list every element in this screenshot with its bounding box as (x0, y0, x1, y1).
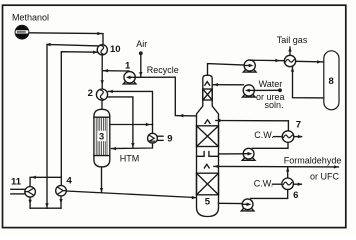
wire water pump discharge to column top spray (213, 84, 243, 86)
node water dot + line (278, 88, 282, 92)
svg-text:5: 5 (205, 197, 211, 208)
svg-text:Formaldehyde: Formaldehyde (284, 156, 342, 166)
svg-text:2: 2 (88, 88, 93, 99)
wire reactor outlet down (101, 167, 103, 192)
wire HX6 riser to product line (287, 167, 289, 178)
packing X wide upper (197, 126, 219, 147)
svg-text:3: 3 (99, 132, 104, 143)
reactor R3 (94, 109, 110, 167)
svg-text:Recycle: Recycle (147, 65, 179, 75)
wire HX10 HTM in (from HX4 riser) (61, 52, 98, 186)
pump P1 tail gas (243, 60, 256, 72)
svg-text:C.W.: C.W. (254, 130, 273, 140)
wire HX4 bottom to loop (60, 196, 62, 208)
pump P3 circulation (242, 148, 255, 160)
wire spray line into column (from HX7/vessel8) (216, 120, 289, 122)
wire HX9 bottom to HTM return (111, 143, 152, 149)
wire HTM out of HX2 down to return (108, 97, 133, 148)
heat exchanger U7 (274, 131, 303, 143)
svg-text:9: 9 (167, 133, 172, 144)
blower K1 (123, 72, 136, 84)
heat exchanger U6 (273, 178, 303, 190)
wire HTM into HX2 from riser (108, 91, 152, 124)
heat exchanger U9 (148, 133, 163, 143)
heat exchanger U10 (97, 45, 107, 55)
wire methanol to HX10 (29, 33, 103, 45)
wire loop bottom (30, 207, 61, 209)
svg-text:Water: Water (259, 79, 283, 89)
wire HX11/HX4 loop top (30, 177, 61, 186)
wire collector drain to pump (219, 153, 244, 155)
wire HX7 bottom to circulation pump (252, 142, 288, 148)
wire blower discharge to main line (103, 70, 129, 72)
svg-text:1: 1 (125, 60, 131, 71)
spray nozzle top (narrow) (205, 82, 210, 86)
pump P2 water feed (243, 85, 256, 97)
heat exchanger tail gas cooler (284, 55, 295, 66)
svg-text:4: 4 (67, 176, 73, 187)
wire pump to tailgas HX (251, 59, 285, 62)
svg-text:11: 11 (11, 176, 22, 187)
packing X narrow (203, 89, 212, 100)
packing X wide lower (197, 173, 219, 195)
node air inlet dot (139, 51, 143, 55)
wire main vertical HX10 to HX2 (101, 55, 103, 89)
svg-text:Air: Air (136, 39, 147, 49)
wire riser down into HX9 (152, 125, 154, 134)
pump P4 bottoms (241, 199, 254, 211)
svg-text:10: 10 (110, 44, 121, 55)
wire HX10 HTM out (left, arrow) (47, 45, 99, 209)
svg-text:7: 7 (296, 120, 301, 131)
methanol source symbol (15, 25, 29, 39)
heat exchanger U2 (96, 89, 107, 100)
collector tray (197, 152, 205, 157)
wire product line (214, 165, 339, 168)
heat exchanger U11 (11, 187, 36, 198)
heat exchanger U4 (56, 185, 67, 196)
wire column top to tailgas pump (208, 64, 245, 76)
wire HX4 to column 5 feed (66, 191, 196, 198)
wire HX2 to reactor (101, 100, 103, 109)
cone line (203, 105, 212, 107)
wire tail gas up arrow (289, 47, 291, 55)
wire HX11 bottom to loop (29, 197, 31, 208)
svg-text:HTM: HTM (120, 154, 140, 164)
wire recycle riser from column (175, 77, 196, 116)
wire blower suction from air/recycle (135, 76, 175, 78)
wire branch down to HX7 (287, 121, 289, 131)
wire vessel 8 drain up into tail gas cooler (293, 66, 324, 98)
svg-text:6: 6 (293, 190, 298, 201)
svg-text:or UFC: or UFC (310, 171, 340, 181)
wire column bottoms to pump (219, 202, 243, 204)
vessel V8 (324, 51, 339, 110)
absorber column T5 (197, 75, 219, 216)
wire reactor HTM out to HX9 riser (110, 124, 153, 126)
svg-text:Tail gas: Tail gas (277, 35, 308, 45)
svg-text:C.W.: C.W. (254, 178, 273, 188)
wire air down to blower suction (140, 55, 142, 77)
wire HX6 bottom to bottoms pump (251, 190, 288, 199)
wire tailgas HX to vessel 8 (296, 60, 324, 63)
spray nozzle wide lower (204, 164, 209, 168)
svg-text:8: 8 (329, 76, 334, 87)
svg-text:Methanol: Methanol (12, 12, 49, 22)
svg-text:soln.: soln. (265, 100, 284, 110)
spray nozzle wide upper (205, 120, 210, 124)
